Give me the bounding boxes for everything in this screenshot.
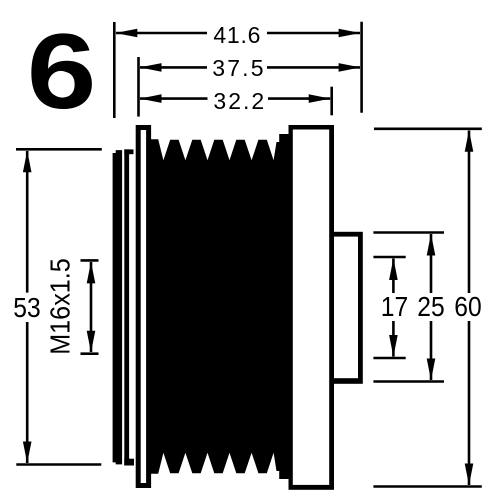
svg-text:M16x1.5: M16x1.5 [44, 258, 76, 355]
svg-text:53: 53 [13, 292, 40, 324]
svg-text:25: 25 [417, 291, 444, 323]
svg-text:32.2: 32.2 [213, 88, 266, 114]
svg-text:17: 17 [381, 291, 408, 323]
svg-text:41.6: 41.6 [213, 22, 261, 48]
svg-text:60: 60 [454, 291, 481, 323]
svg-text:37.5: 37.5 [212, 55, 266, 81]
